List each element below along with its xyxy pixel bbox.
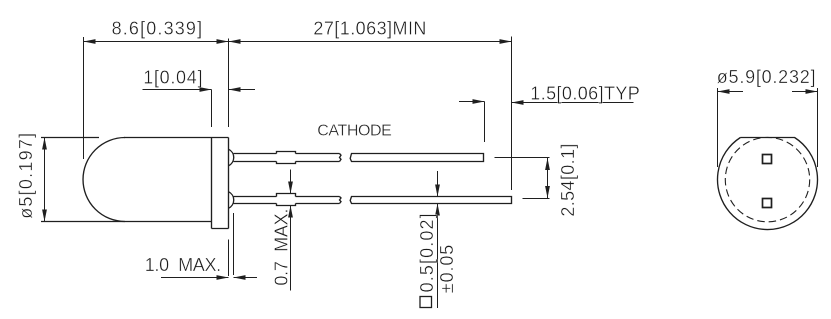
svg-text:ø5.9[0.232]: ø5.9[0.232] <box>717 67 816 87</box>
svg-text:0.5[0.02]: 0.5[0.02] <box>417 213 437 292</box>
svg-text:1[0.04]: 1[0.04] <box>143 68 202 88</box>
svg-text:ø5[0.197]: ø5[0.197] <box>16 133 36 219</box>
svg-text:2.54[0.1]: 2.54[0.1] <box>558 144 578 217</box>
svg-text:0.7 MAX.: 0.7 MAX. <box>271 209 291 286</box>
svg-text:1.5[0.06]TYP: 1.5[0.06]TYP <box>530 83 640 103</box>
svg-text:27[1.063]MIN: 27[1.063]MIN <box>313 19 426 39</box>
svg-text:CATHODE: CATHODE <box>317 122 392 139</box>
svg-text:±0.05: ±0.05 <box>437 245 457 294</box>
svg-text:8.6[0.339]: 8.6[0.339] <box>112 18 203 38</box>
svg-text:1.0 MAX.: 1.0 MAX. <box>145 255 222 275</box>
